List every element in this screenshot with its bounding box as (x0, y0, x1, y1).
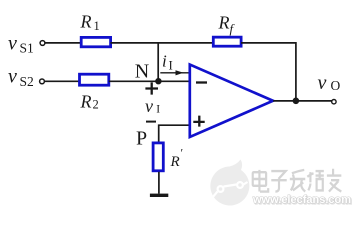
svg-text:P: P (136, 127, 147, 149)
svg-text:S2: S2 (20, 74, 34, 89)
polarity minus at P (146, 121, 156, 123)
label vS1 (8, 33, 34, 56)
label vI (145, 96, 160, 116)
label Rf (218, 13, 236, 36)
output node dot (293, 98, 300, 105)
wire opamp plus input (159, 125, 190, 142)
op-amp U1 (190, 65, 273, 138)
terminal vS2 (40, 79, 45, 84)
wire top rail drop to node N (157, 43, 159, 81)
svg-text:v: v (318, 72, 327, 94)
svg-text:O: O (331, 78, 341, 93)
wire opamp output (273, 100, 332, 102)
watermark chinese text 电子发烧友 (253, 169, 342, 192)
feedback resistor Rf (213, 37, 241, 46)
opamp plus sign (193, 116, 204, 127)
svg-text:1: 1 (94, 19, 100, 33)
label R2 (80, 91, 99, 111)
svg-text:I: I (156, 104, 160, 116)
node N dot (155, 78, 161, 84)
svg-text:v: v (145, 96, 153, 116)
label vS2 (8, 65, 34, 89)
svg-text:S1: S1 (20, 41, 34, 56)
opamp minus sign (196, 81, 207, 83)
svg-text:I: I (169, 59, 173, 73)
ground (150, 194, 168, 197)
label i1 (162, 51, 173, 72)
svg-text:v: v (8, 33, 17, 55)
wire Rf to output corner (241, 43, 296, 101)
resistor R1 (81, 37, 110, 46)
label R1 (80, 11, 100, 33)
svg-text:N: N (135, 61, 149, 83)
output terminal (332, 100, 336, 104)
terminal vS1 (40, 41, 45, 46)
svg-text:R: R (80, 91, 92, 111)
svg-text:R: R (80, 11, 92, 31)
wire R' to ground (158, 172, 160, 194)
svg-text:R: R (218, 13, 230, 33)
resistor R2 (80, 74, 109, 85)
wire vS1 to R1 (45, 42, 81, 44)
wire R1 to Rf (111, 42, 214, 44)
svg-text:v: v (8, 65, 17, 87)
svg-text:′: ′ (181, 146, 184, 160)
label vO (318, 72, 341, 94)
current arrow i1 (160, 72, 189, 74)
wire R2 to opamp minus input (109, 80, 190, 82)
watermark logo circle (210, 160, 249, 206)
svg-text:R: R (170, 154, 180, 170)
svg-text:i: i (162, 51, 167, 70)
wire vS2 to R2 (45, 80, 81, 82)
polarity plus at N (145, 82, 158, 94)
svg-text:2: 2 (93, 98, 99, 112)
label R' (170, 146, 184, 170)
svg-text:www.elecfans.com: www.elecfans.com (252, 194, 351, 206)
resistor R' (153, 143, 163, 171)
